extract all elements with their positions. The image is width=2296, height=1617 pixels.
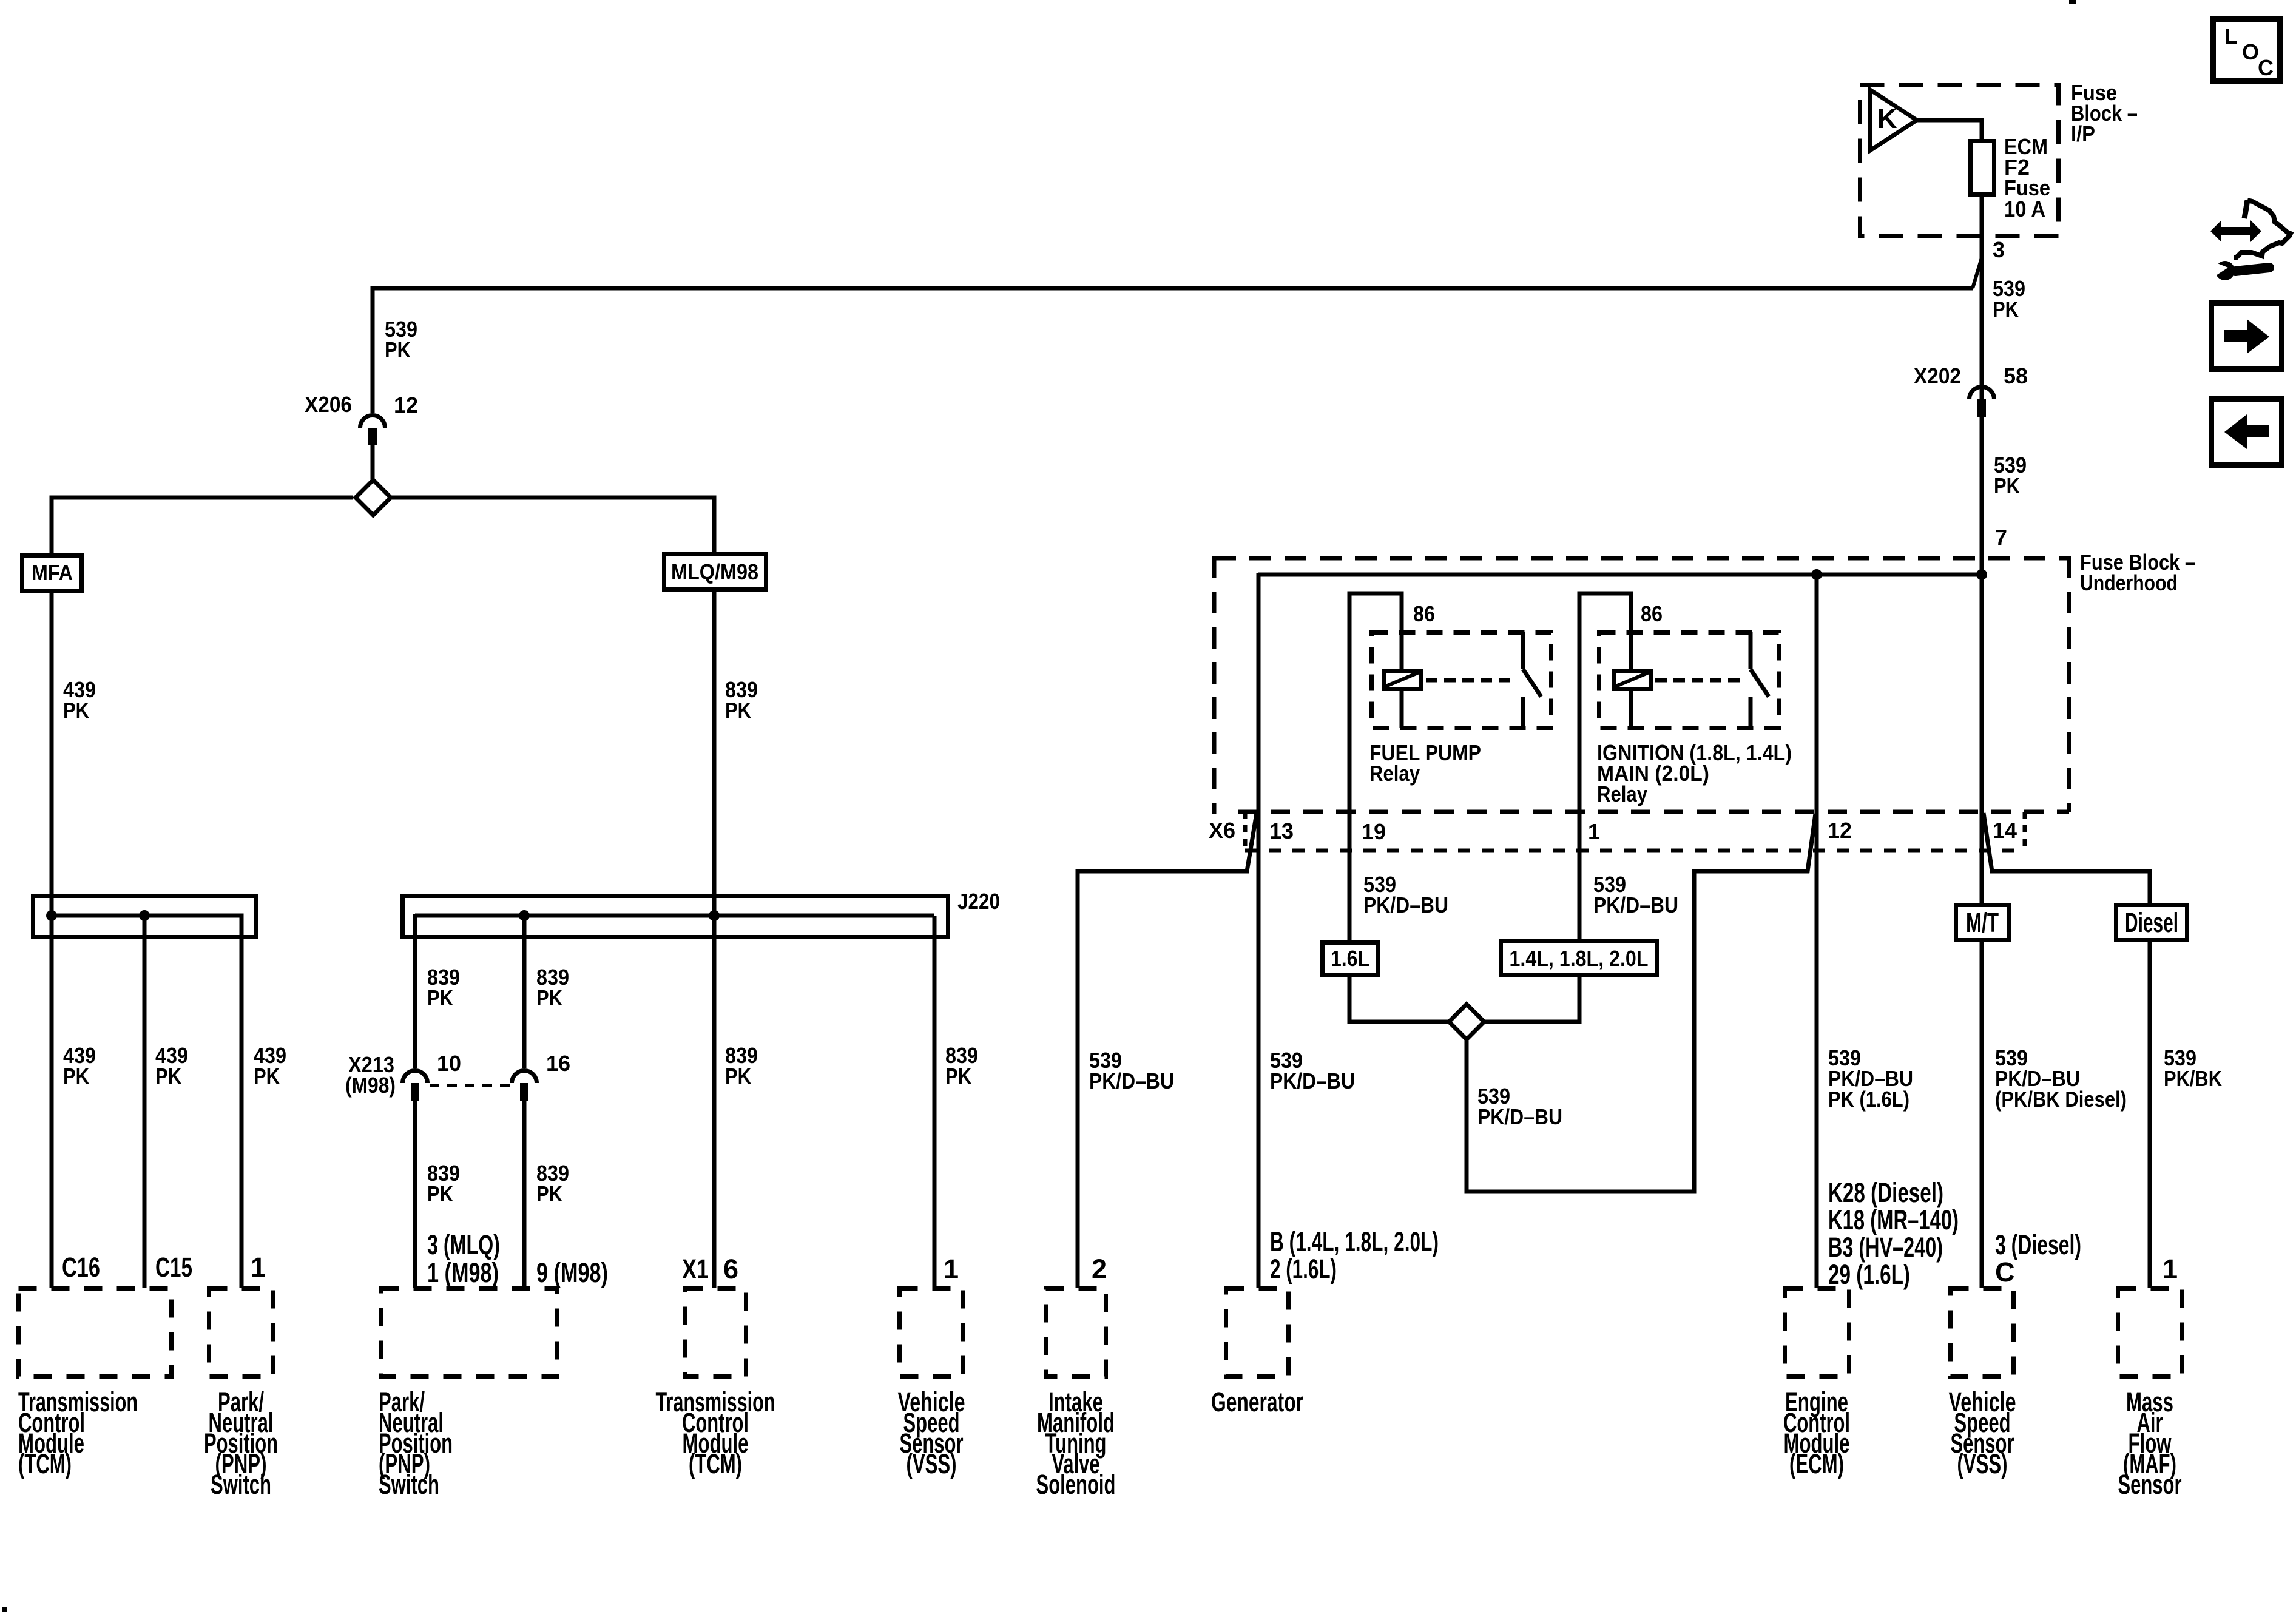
svg-text:(TCM): (TCM): [689, 1448, 742, 1479]
relay coil-switch dashed link: [1426, 678, 1517, 683]
box MLQ/M98: [664, 554, 766, 590]
wire: triangle to fuse: [1915, 120, 1982, 141]
svg-text:6: 6: [723, 1254, 738, 1284]
wire: X206 to splice diamond: [371, 444, 375, 479]
connector X213 pin 16: [512, 1070, 537, 1083]
fuse ECM F2 10A: [1971, 141, 1994, 195]
box MFA: [22, 556, 82, 592]
svg-text:PK: PK: [155, 1064, 181, 1089]
svg-text:(PK/BK Diesel): (PK/BK Diesel): [1995, 1087, 2127, 1112]
wire: X213-16 to PNP switch: [522, 1099, 527, 1288]
svg-text:PK: PK: [427, 985, 453, 1010]
wire: 1.6L to diamond: [1349, 976, 1450, 1022]
icon left-arrow box: [2212, 399, 2282, 465]
wire: 1.4L box to diamond: [1483, 976, 1579, 1022]
svg-text:PK (1.6L): PK (1.6L): [1828, 1087, 1909, 1112]
svg-text:B3 (HV–240): B3 (HV–240): [1828, 1232, 1943, 1263]
svg-text:16: 16: [546, 1051, 570, 1076]
icon wrench head: [2215, 261, 2235, 280]
svg-text:PK: PK: [63, 698, 89, 723]
junction dot: [46, 910, 57, 921]
svg-text:MLQ/M98: MLQ/M98: [671, 559, 758, 584]
svg-text:PK: PK: [254, 1064, 280, 1089]
svg-text:7: 7: [1995, 525, 2007, 550]
svg-text:X202: X202: [1914, 363, 1961, 388]
wire: drop from rail to X206: [371, 286, 375, 413]
fuse block underhood dashed top edge: [1214, 556, 2069, 561]
box 1.4L 1.8L 2.0L: [1501, 941, 1657, 976]
svg-text:(VSS): (VSS): [1957, 1448, 2008, 1479]
svg-text:1 (M98): 1 (M98): [427, 1257, 499, 1288]
svg-text:J220: J220: [957, 889, 1000, 914]
relay coil lower stub: [1400, 689, 1404, 728]
connector X6 band left closure: [1243, 812, 1248, 851]
svg-text:(VSS): (VSS): [907, 1448, 957, 1479]
connector X6 band top dashed line: [1238, 810, 2069, 814]
svg-text:(M98): (M98): [345, 1073, 396, 1098]
wire: fuse to pin 3 and down to X202: [1980, 195, 1984, 413]
fuse block underhood dashed left edge: [1212, 556, 1217, 814]
svg-text:X1: X1: [682, 1254, 709, 1284]
svg-text:MFA: MFA: [32, 560, 73, 585]
artifact mark top right: [2069, 0, 2076, 4]
junction dot rail/ECM wire: [1811, 569, 1822, 580]
component box Transmission Control Module TCM 2: [685, 1289, 746, 1377]
wire: J220 internal rail: [415, 914, 934, 918]
svg-text:1: 1: [944, 1254, 959, 1284]
wire: pin 19 through 1.6L box to diamond: [1348, 592, 1352, 942]
svg-text:13: 13: [1269, 819, 1294, 843]
wire: pin 13 jog to intake branch: [1078, 813, 1257, 1288]
junction bar J220: [403, 896, 948, 937]
svg-text:Generator: Generator: [1211, 1386, 1303, 1417]
svg-text:C15: C15: [155, 1252, 192, 1283]
svg-text:C: C: [1995, 1257, 2015, 1288]
svg-text:O: O: [2242, 39, 2259, 64]
svg-text:Switch: Switch: [211, 1469, 271, 1500]
junction dot: [139, 910, 150, 921]
icon engine outline arm: [2244, 200, 2247, 218]
wire: rail to ECM (pin 12): [1815, 573, 1819, 1288]
svg-text:K18 (MR–140): K18 (MR–140): [1828, 1204, 1959, 1235]
svg-text:10 A: 10 A: [2004, 197, 2045, 221]
relay coil (fuel pump): [1384, 671, 1421, 689]
svg-text:K28 (Diesel): K28 (Diesel): [1828, 1177, 1943, 1208]
fuse block I/P dashed box: [1860, 86, 2059, 237]
svg-text:PK/D–BU: PK/D–BU: [1089, 1068, 1174, 1093]
component box Park/Neutral Position switch 2: [381, 1289, 558, 1377]
wire: internal power rail: [1258, 573, 1982, 577]
wire: X213-10 to PNP switch: [413, 1099, 417, 1288]
svg-text:86: 86: [1413, 601, 1435, 626]
connector X206: [360, 416, 385, 428]
svg-text:PK/D–BU: PK/D–BU: [1270, 1068, 1355, 1093]
fuse block underhood dashed right edge: [2067, 556, 2071, 812]
junction dot: [709, 910, 720, 921]
svg-text:B (1.4L, 1.8L, 2.0L): B (1.4L, 1.8L, 2.0L): [1270, 1226, 1439, 1257]
svg-text:PK: PK: [385, 337, 411, 362]
connector X202: [1970, 387, 1994, 400]
wire: J220 to X213 pin 10: [413, 914, 417, 1068]
dashed link X213: [430, 1084, 510, 1087]
relay switch lower stub: [1749, 697, 1753, 728]
svg-text:Relay: Relay: [1597, 781, 1647, 806]
icon right-arrow box: [2212, 303, 2282, 370]
relay IGNITION/MAIN dashed box: [1599, 633, 1779, 728]
svg-text:14: 14: [1993, 818, 2017, 843]
relay switch blade: [1523, 669, 1541, 697]
box Diesel: [2116, 905, 2187, 940]
svg-text:3 (Diesel): 3 (Diesel): [1995, 1229, 2081, 1260]
relay FUEL PUMP dashed box: [1372, 633, 1551, 728]
relay switch upper stub: [1749, 632, 1753, 669]
component box Mass Air Flow sensor: [2118, 1289, 2183, 1377]
box 1.6L: [1323, 943, 1378, 976]
wire: Diesel to MAF pin 1: [2148, 940, 2152, 1288]
triangle K (power feed): [1870, 90, 1917, 150]
svg-text:(ECM): (ECM): [1789, 1448, 1844, 1479]
wire: X213 pin 16 drop: [522, 914, 527, 1068]
svg-text:2 (1.6L): 2 (1.6L): [1270, 1254, 1337, 1284]
wire: splice to MFA branch: [52, 498, 353, 555]
svg-text:M/T: M/T: [1966, 907, 1999, 938]
wire: MFA box to junction bar (passes through to TCM C16): [50, 592, 54, 1288]
svg-text:PK/D–BU: PK/D–BU: [1477, 1104, 1562, 1129]
wire: junction bar internal: [52, 916, 241, 1288]
connector X6 band bottom dashed line: [1245, 849, 2025, 853]
relay coil lower stub: [1629, 689, 1633, 728]
wire: ignition relay coil feed (pin 1): [1579, 593, 1631, 670]
wire: X202 to fuse block underhood pin 7 and through to M/T: [1980, 415, 1984, 905]
svg-text:3: 3: [1993, 237, 2005, 262]
icon right arrow: [2224, 319, 2269, 354]
svg-text:1: 1: [2163, 1254, 2178, 1284]
svg-text:PK: PK: [63, 1064, 89, 1089]
svg-text:PK: PK: [536, 1181, 562, 1206]
wire: diagonal rail end to pin 3: [1973, 258, 1982, 288]
svg-text:PK: PK: [1994, 473, 2020, 498]
svg-text:L: L: [2224, 24, 2238, 49]
icon engine outline: [2234, 200, 2291, 258]
svg-text:C16: C16: [62, 1252, 100, 1283]
relay switch lower stub: [1521, 697, 1525, 728]
svg-text:9 (M98): 9 (M98): [536, 1257, 608, 1288]
svg-text:2: 2: [1092, 1254, 1107, 1284]
icon LOC box: [2213, 19, 2280, 81]
wire: pin 1 through 1.4L box to diamond: [1578, 592, 1582, 940]
svg-text:12: 12: [1828, 818, 1852, 843]
svg-text:PK/D–BU: PK/D–BU: [1363, 893, 1448, 917]
box M/T: [1956, 905, 2009, 940]
wire: pin 12 jog: [1467, 814, 1815, 1192]
wire: M/T to VSS pin C: [1980, 940, 1984, 1288]
svg-text:PK: PK: [1993, 297, 2019, 322]
svg-text:Underhood: Underhood: [2080, 570, 2178, 595]
icon left arrow: [2224, 414, 2269, 449]
wire: splice to MLQ branch: [390, 498, 714, 553]
component box Transmission Control Module TCM: [19, 1289, 172, 1377]
svg-text:86: 86: [1641, 601, 1663, 626]
wire: pin 14 jog to Diesel branch: [1984, 813, 2150, 905]
svg-text:I/P: I/P: [2071, 121, 2095, 146]
svg-text:29 (1.6L): 29 (1.6L): [1828, 1259, 1910, 1290]
artifact period bottom left: [2, 1607, 7, 1612]
svg-text:PK: PK: [725, 698, 751, 723]
svg-text:1: 1: [1588, 819, 1600, 844]
component box Intake Manifold Tuning Valve Solenoid: [1046, 1289, 1106, 1377]
svg-text:Relay: Relay: [1369, 761, 1420, 786]
svg-text:Switch: Switch: [379, 1469, 439, 1500]
component box Vehicle Speed Sensor VSS: [900, 1289, 964, 1377]
wire: fuel pump relay coil feed (pin 19): [1349, 593, 1402, 670]
wire: J220 to VSS pin 1: [933, 916, 937, 1288]
relay coil-switch dashed link: [1655, 678, 1746, 683]
svg-text:3 (MLQ): 3 (MLQ): [427, 1229, 500, 1260]
component box Vehicle Speed Sensor VSS 2: [1951, 1289, 2014, 1377]
svg-text:Sensor: Sensor: [2118, 1469, 2182, 1500]
svg-text:10: 10: [437, 1051, 461, 1076]
junction dot: [519, 910, 530, 921]
svg-text:C: C: [2258, 55, 2274, 80]
connector X6 band right closure: [2023, 812, 2027, 851]
wire: main 539 PK top rail: [373, 286, 1973, 291]
svg-text:19: 19: [1362, 819, 1386, 844]
splice diamond S1: [356, 480, 391, 515]
svg-text:PK: PK: [945, 1064, 971, 1089]
svg-text:PK/D–BU: PK/D–BU: [1593, 893, 1678, 917]
svg-text:PK/BK: PK/BK: [2164, 1066, 2222, 1091]
relay coil (ignition): [1614, 671, 1651, 689]
svg-text:X6: X6: [1209, 818, 1235, 843]
connector X213 pin 10: [403, 1070, 428, 1083]
svg-text:(TCM): (TCM): [18, 1448, 72, 1479]
svg-text:1.4L, 1.8L, 2.0L: 1.4L, 1.8L, 2.0L: [1510, 946, 1649, 971]
svg-text:58: 58: [2004, 363, 2028, 388]
svg-text:12: 12: [394, 393, 418, 417]
wire: C15 drop: [143, 916, 147, 1288]
svg-text:PK: PK: [536, 985, 562, 1010]
svg-text:Solenoid: Solenoid: [1036, 1469, 1116, 1500]
svg-text:Diesel: Diesel: [2125, 907, 2178, 938]
junction bar J (MFA): [33, 896, 256, 937]
svg-text:PK: PK: [427, 1181, 453, 1206]
splice diamond S2: [1449, 1004, 1484, 1039]
icon double arrow: [2210, 220, 2261, 242]
wire: rail corner down to Generator (pin 13): [1257, 573, 1261, 1288]
svg-text:PK: PK: [725, 1064, 751, 1089]
relay switch upper stub: [1521, 632, 1525, 669]
svg-text:X206: X206: [305, 392, 352, 417]
svg-text:1: 1: [251, 1252, 266, 1283]
icon wrench handle: [2235, 268, 2269, 271]
wire: MLQ box through J220 to TCM X1-6: [712, 590, 717, 1288]
component box Generator: [1226, 1289, 1289, 1377]
component box Engine Control Module ECM: [1785, 1289, 1849, 1377]
junction dot at rail pin7: [1976, 569, 1987, 580]
relay switch blade: [1751, 669, 1769, 697]
component box Park/Neutral Position switch 1: [209, 1289, 273, 1377]
svg-text:K: K: [1877, 103, 1897, 134]
svg-text:1.6L: 1.6L: [1331, 946, 1369, 971]
